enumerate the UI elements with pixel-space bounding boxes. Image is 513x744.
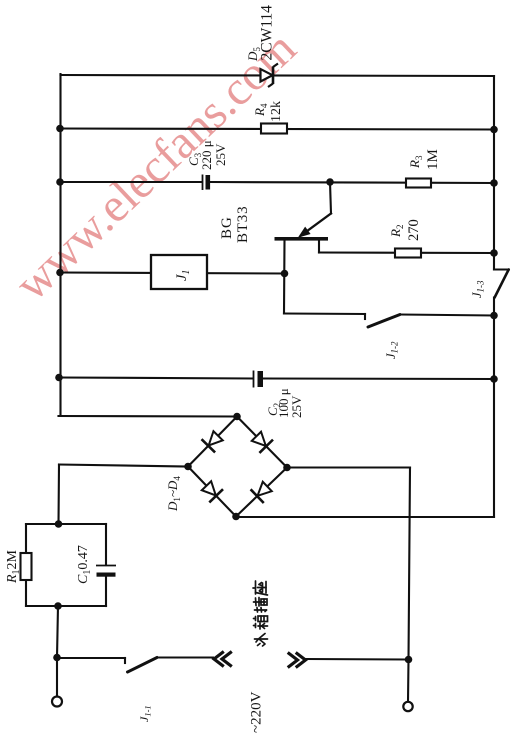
resistor R1 — [21, 553, 32, 580]
junction bridge right vertex — [283, 464, 291, 472]
diode bridge D2 top-right — [250, 430, 273, 453]
transistor Q1 base bar — [275, 237, 329, 241]
resistor R4 — [261, 124, 287, 134]
capacitor C3 — [203, 175, 211, 191]
svg-text:270: 270 — [406, 219, 422, 241]
wire J1-2 fixed rail — [284, 312, 365, 315]
plug chevrons right — [289, 654, 306, 667]
plug chevrons left — [214, 653, 231, 666]
wire J1-1 fixed contact tick — [124, 658, 126, 663]
transistor Q1 emitter arrowhead — [295, 227, 311, 242]
junction emitter / R3 wire — [326, 178, 334, 186]
wire J1-2 fixed contact tick — [364, 314, 366, 319]
diode bridge D1 top-left — [202, 429, 225, 452]
junction right bus / C2 wire — [490, 375, 498, 383]
wire R3 rail left of C3 — [61, 181, 203, 183]
resistor R3 — [406, 179, 431, 188]
wire C2 rail left — [59, 378, 253, 379]
junction R1C1 top — [55, 520, 63, 528]
wire emitter diagonal — [301, 214, 331, 236]
bridge edge wire bottom-left — [188, 467, 236, 517]
relay coil J1 — [151, 255, 207, 289]
junction left bus / J1 coil wire — [56, 269, 64, 277]
label fridge socket (Chinese) — [253, 581, 268, 646]
svg-text:25V: 25V — [213, 143, 228, 166]
junction bridge left vertex — [184, 463, 192, 471]
wire bottom rail to J1-1 — [57, 657, 125, 659]
svg-text:C10.47: C10.47 — [76, 545, 93, 584]
junction right bus / J1-2 wire — [490, 312, 498, 320]
wire transistor B1 lead down — [283, 241, 286, 314]
switch J1-2 blade — [368, 315, 400, 328]
wire R2 rail — [319, 251, 494, 254]
junction left bus / R3 wire — [56, 178, 64, 186]
wire left drop to R1C1 — [57, 465, 60, 525]
junction bottom rail left — [53, 654, 61, 662]
wire transistor B2 lead — [318, 241, 320, 253]
wire top rail — [61, 75, 495, 76]
bridge edge wire top-right — [237, 417, 287, 468]
wire right bus lower — [493, 298, 495, 518]
switch J1-1 blade — [128, 658, 158, 673]
wire R1C1 right edge upper — [105, 524, 107, 565]
junction right bus / R2 wire — [490, 249, 498, 257]
wire bridge right feed vertical — [409, 468, 411, 660]
wire R1C1 right edge lower — [105, 577, 107, 606]
diode bridge D4 bottom-right — [251, 480, 274, 503]
svg-text:D1~D4: D1~D4 — [165, 476, 182, 512]
terminal left — [52, 697, 62, 707]
wire R1C1 left edge — [25, 524, 27, 606]
wire R3 rail right of C3 — [211, 182, 495, 183]
switch J1-3 blade — [495, 270, 509, 298]
wire C2 rail right — [264, 377, 495, 380]
svg-text:1M: 1M — [425, 149, 441, 170]
svg-text:2CW114: 2CW114 — [259, 5, 276, 61]
svg-text:12k: 12k — [269, 101, 284, 122]
capacitor C1 — [96, 566, 116, 577]
resistor R2 — [395, 249, 421, 258]
junction R1C1 bottom — [54, 602, 62, 610]
junction left bus / R4 wire — [56, 125, 64, 133]
junction bridge bottom vertex — [232, 513, 240, 521]
junction right bus / R3 wire — [490, 179, 498, 187]
diode bridge D3 bottom-left — [200, 479, 223, 502]
wire J1-3 jog — [494, 268, 509, 270]
svg-text:25V: 25V — [289, 395, 304, 418]
wire R1C1 top edge — [26, 523, 106, 525]
svg-text:220 μ: 220 μ — [199, 140, 214, 170]
junction left bus / C2 wire — [55, 374, 63, 382]
junction right bus / R4 wire — [490, 126, 498, 134]
svg-text:BT33: BT33 — [235, 206, 251, 243]
wire bridge left feed horizontal — [59, 465, 188, 467]
wire R1C1 bottom drop — [57, 606, 58, 658]
junction bottom rail right — [405, 656, 413, 664]
wire left bus — [59, 74, 61, 416]
wire emitter vertical — [330, 182, 331, 214]
junction B1 / J1 coil wire — [281, 270, 289, 278]
wire bridge bottom rail — [236, 516, 494, 518]
svg-text:R12M: R12M — [5, 549, 22, 584]
zener diode D5 — [261, 64, 279, 88]
wire J1-1 to left chevron — [157, 656, 213, 658]
wire right chevron to right junction — [306, 658, 409, 661]
wire bridge top feed — [59, 415, 238, 418]
capacitor C2 — [254, 371, 264, 388]
wire R4 rail — [61, 129, 495, 130]
wire J1 coil rail — [61, 273, 285, 274]
wire right bus upper — [493, 76, 495, 270]
wire J1-2 to right bus — [400, 315, 494, 316]
wire R1C1 bottom edge — [26, 605, 106, 607]
junction bridge top vertex — [233, 413, 241, 421]
bridge edge wire top-left — [188, 417, 237, 467]
wire to right terminal — [407, 660, 410, 703]
svg-text:~220V: ~220V — [249, 691, 265, 733]
svg-text:BG: BG — [219, 216, 235, 239]
terminal right — [403, 702, 412, 711]
wire to left terminal — [56, 658, 58, 697]
bridge edge wire bottom-right — [236, 468, 287, 517]
wire bridge right feed horizontal — [287, 466, 410, 468]
